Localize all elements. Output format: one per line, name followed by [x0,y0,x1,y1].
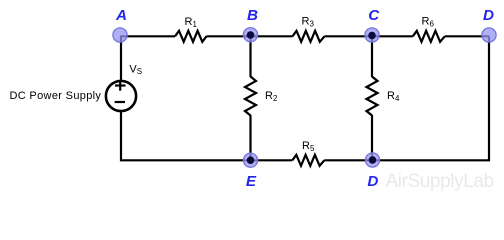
wire: bottom rail D to bottom-right corner and up to node D [373,36,490,160]
wire: top rail B-R3 [251,35,293,37]
node A circle [113,28,127,42]
svg-text:R3: R3 [302,16,315,29]
junction dot E [247,156,255,164]
junction dot C [368,32,376,40]
node E circle [243,153,257,167]
resistor R2 [245,77,256,116]
wire: top rail R1-B [207,35,251,37]
svg-text:E: E [246,173,257,190]
wire: Vs bottom to bottom-left corner [121,112,251,160]
svg-text:C: C [368,7,380,24]
wire: top rail C-R6 [372,35,413,37]
resistor R3 [293,31,325,42]
svg-text:A: A [115,7,127,24]
svg-text:D: D [367,173,378,190]
svg-text:R1: R1 [185,16,198,29]
wire: B down to E [249,36,251,77]
resistor R5 [292,155,324,166]
svg-text:R2: R2 [265,90,278,103]
wire: left rail A to Vs top [120,35,122,81]
svg-text:B: B [247,7,258,24]
svg-text:AirSupplyLab: AirSupplyLab [386,171,494,192]
wire: top rail A-B (left of R1) [121,35,176,37]
voltage source plus sign [115,84,126,86]
node D top circle [482,28,496,42]
wire: bottom rail R5-D [324,159,372,161]
node C circle [365,28,379,42]
svg-text:R5: R5 [302,140,315,153]
junction dot B [247,31,255,39]
voltage source Vs circle [106,81,136,111]
wire: top rail R3-C [325,35,373,37]
svg-text:D: D [483,7,494,24]
svg-text:R4: R4 [387,90,400,103]
node B circle [243,28,257,42]
junction dot D bottom [369,156,377,164]
resistor R6 [413,31,445,42]
node D bottom circle [365,153,379,167]
resistor R1 [175,31,207,42]
wire: top rail R6-D [445,35,489,37]
voltage source minus sign [115,101,125,103]
wire: C down to D [371,36,373,77]
wire: bottom rail E-R5 [251,159,293,161]
svg-text:R6: R6 [422,16,435,29]
svg-text:VS: VS [129,63,142,76]
resistor R4 [367,77,378,116]
svg-text:DC Power Supply: DC Power Supply [10,90,102,102]
